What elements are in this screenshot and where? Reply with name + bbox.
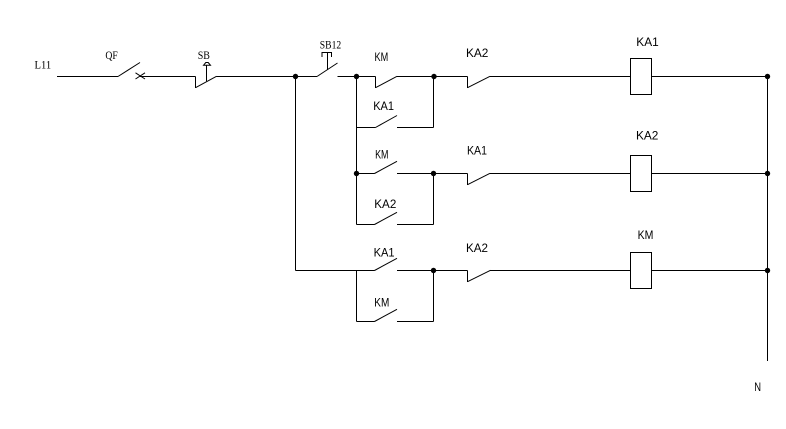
svg-text:KA2: KA2 — [466, 48, 488, 60]
svg-text:N: N — [754, 382, 761, 394]
svg-text:KA2: KA2 — [636, 131, 658, 143]
svg-text:KM: KM — [375, 150, 388, 162]
svg-text:SB: SB — [198, 48, 210, 62]
svg-text:L11: L11 — [35, 58, 52, 72]
svg-text:KA2: KA2 — [374, 199, 396, 211]
svg-text:KA1: KA1 — [636, 37, 658, 49]
svg-text:KA2: KA2 — [466, 243, 488, 255]
svg-text:KA1: KA1 — [373, 101, 394, 113]
svg-text:KM: KM — [374, 298, 389, 310]
svg-text:KM: KM — [375, 52, 389, 64]
svg-text:QF: QF — [105, 48, 118, 62]
svg-text:KA1: KA1 — [467, 146, 487, 158]
svg-text:SB12: SB12 — [320, 37, 341, 51]
svg-text:KM: KM — [638, 230, 654, 242]
svg-text:KA1: KA1 — [374, 248, 395, 260]
